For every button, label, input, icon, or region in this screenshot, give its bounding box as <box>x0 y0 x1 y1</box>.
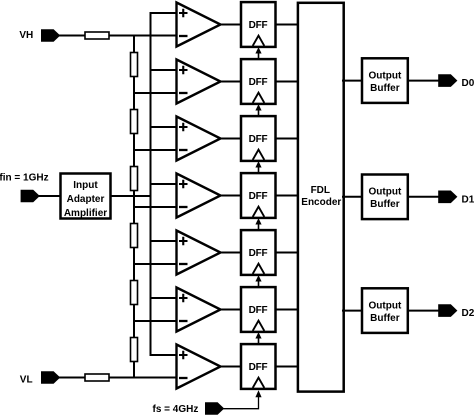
connector VH input terminal <box>41 29 60 41</box>
wire DFF2 output to FDL encoder <box>275 81 300 83</box>
wire VH to comparator U1 minus <box>58 35 177 37</box>
svg-text:fs = 4GHz: fs = 4GHz <box>153 404 199 415</box>
wire amplifier output to signal bus <box>111 195 151 197</box>
wire clock arrow DFF7 to DFF6 <box>258 338 260 345</box>
resistor R5 ladder <box>131 281 138 305</box>
resistor RL (VL series) <box>85 374 109 381</box>
svg-text:Adapter: Adapter <box>67 194 105 205</box>
svg-text:DFF: DFF <box>249 305 268 316</box>
wire signal bus (amplifier output distribution) <box>150 13 152 355</box>
buffer B2 Output Buffer <box>362 175 408 220</box>
svg-text:DFF: DFF <box>249 362 268 373</box>
comparator U7 <box>177 345 221 389</box>
wire comparator U1 output to DFF1 <box>220 24 243 26</box>
svg-text:Buffer: Buffer <box>370 199 400 210</box>
resistor R2 ladder <box>131 110 138 134</box>
flip-flop DFF3 <box>241 116 276 161</box>
wire comparator U5 output to DFF5 <box>220 252 243 254</box>
connector D0 output terminal <box>438 74 457 87</box>
wire DFF3 output to FDL encoder <box>275 138 300 140</box>
wire ladder tap node T4 to comparator U5 minus <box>134 263 177 265</box>
clock pin triangle DFF2 <box>253 93 265 103</box>
connector fs clock input terminal <box>205 402 224 414</box>
wire signal bus to comparator U5 plus <box>150 240 178 242</box>
wire comparator U6 output to DFF6 <box>220 309 243 311</box>
clock pin triangle DFF1 <box>253 36 265 46</box>
wire output buffer B1 to D0 terminal <box>407 80 440 82</box>
wire signal bus to comparator U2 plus <box>150 69 178 71</box>
flip-flop DFF4 <box>241 173 276 218</box>
wire signal bus to comparator U7 plus <box>150 354 178 356</box>
resistor R1 ladder <box>131 53 138 77</box>
svg-text:DFF: DFF <box>249 248 268 259</box>
buffer B1 Output Buffer <box>362 58 408 103</box>
wire reference ladder (node VH to node VL) <box>133 36 135 378</box>
wire clock arrow DFF6 to DFF5 <box>258 281 260 288</box>
comparator U2 <box>177 60 221 104</box>
resistor RH (VH series) <box>85 32 109 39</box>
wire signal bus to comparator U1 plus <box>150 12 178 14</box>
resistor R3 ladder <box>131 167 138 191</box>
comparator U4 <box>177 174 221 218</box>
svg-text:DFF: DFF <box>249 134 268 145</box>
wire output buffer B2 to D1 terminal <box>407 196 440 198</box>
svg-text:DFF: DFF <box>249 191 268 202</box>
wire FDL encoder to output buffer B1 <box>342 80 363 82</box>
svg-text:DFF: DFF <box>249 77 268 88</box>
buffer B3 Output Buffer <box>362 288 408 333</box>
svg-text:Amplifier: Amplifier <box>64 208 107 219</box>
clock pin triangle DFF4 <box>253 207 265 217</box>
wire rfin to amplifier <box>38 195 60 197</box>
svg-text:Buffer: Buffer <box>370 313 400 324</box>
flip-flop DFF6 <box>241 287 276 332</box>
wire fs clock to DFF7 clock pin <box>222 397 259 409</box>
op-amp U0 Input Adapter Amplifier <box>61 174 111 219</box>
wire DFF6 output to FDL encoder <box>275 309 300 311</box>
wire ladder tap node T2 to comparator U3 minus <box>134 149 177 151</box>
wire DFF5 output to FDL encoder <box>275 252 300 254</box>
wire comparator U7 output to DFF7 <box>220 366 243 368</box>
svg-text:VH: VH <box>19 30 33 41</box>
wire DFF4 output to FDL encoder <box>275 195 300 197</box>
svg-text:Output: Output <box>369 187 402 198</box>
wire ladder tap node T1 to comparator U2 minus <box>134 92 177 94</box>
wire FDL encoder to output buffer B2 <box>342 196 363 198</box>
svg-text:DFF: DFF <box>249 20 268 31</box>
resistor R6 ladder <box>131 338 138 362</box>
clock pin triangle DFF6 <box>253 321 265 331</box>
flip-flop DFF7 <box>241 344 276 389</box>
svg-text:D1: D1 <box>462 194 474 205</box>
wire comparator U2 output to DFF2 <box>220 81 243 83</box>
svg-text:Output: Output <box>369 71 402 82</box>
flip-flop DFF1 <box>241 2 276 47</box>
svg-text:rfin = 1GHz: rfin = 1GHz <box>0 172 49 183</box>
svg-text:D0: D0 <box>462 78 474 89</box>
comparator U6 <box>177 288 221 332</box>
clock pin triangle DFF3 <box>253 150 265 160</box>
flip-flop DFF2 <box>241 59 276 104</box>
wire DFF7 output to FDL encoder <box>275 366 300 368</box>
connector D1 output terminal <box>438 191 457 204</box>
wire DFF1 output to FDL encoder <box>275 24 300 26</box>
encoder U8 FDL Encoder <box>298 3 344 392</box>
flip-flop DFF5 <box>241 230 276 275</box>
svg-text:Output: Output <box>369 301 402 312</box>
svg-text:VL: VL <box>20 375 33 386</box>
wire clock arrow DFF2 to DFF1 <box>258 53 260 60</box>
connector rfin input terminal <box>21 190 40 202</box>
svg-text:D2: D2 <box>462 308 474 319</box>
wire comparator U3 output to DFF3 <box>220 138 243 140</box>
wire ladder tap node T3 to comparator U4 minus <box>134 206 177 208</box>
svg-text:FDL: FDL <box>311 185 330 196</box>
comparator U3 <box>177 117 221 161</box>
svg-text:Buffer: Buffer <box>370 83 400 94</box>
clock pin triangle DFF7 <box>253 378 265 388</box>
wire comparator U4 output to DFF4 <box>220 195 243 197</box>
svg-text:Encoder: Encoder <box>301 197 341 208</box>
wire signal bus to comparator U3 plus <box>150 126 178 128</box>
comparator U1 <box>177 3 221 47</box>
wire VL to comparator U7 minus <box>58 377 177 379</box>
svg-text:Input: Input <box>73 180 98 191</box>
wire clock arrow DFF5 to DFF4 <box>258 224 260 231</box>
clock pin triangle DFF5 <box>253 264 265 274</box>
connector VL input terminal <box>41 371 60 383</box>
wire clock arrow DFF4 to DFF3 <box>258 167 260 174</box>
connector D2 output terminal <box>438 304 457 317</box>
wire output buffer B3 to D2 terminal <box>407 310 440 312</box>
resistor R4 ladder <box>131 224 138 248</box>
wire clock arrow DFF3 to DFF2 <box>258 110 260 117</box>
wire signal bus to comparator U4 plus <box>150 183 178 185</box>
comparator U5 <box>177 231 221 275</box>
wire ladder tap node T5 to comparator U6 minus <box>134 320 177 322</box>
wire signal bus to comparator U6 plus <box>150 297 178 299</box>
wire FDL encoder to output buffer B3 <box>342 310 363 312</box>
